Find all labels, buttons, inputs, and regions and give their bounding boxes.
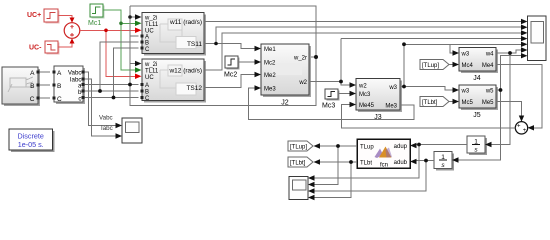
wire Me5 to summer top xyxy=(496,102,522,116)
subsystem J5 xyxy=(459,85,498,110)
svg-text:w_2i: w_2i xyxy=(144,62,157,68)
junction w5 xyxy=(499,88,503,92)
svg-text:w2: w2 xyxy=(358,84,367,90)
arrow Me45 xyxy=(350,102,357,107)
junction adup xyxy=(417,143,421,147)
wire UC+ step to summer xyxy=(58,16,72,22)
svg-text:Mc4: Mc4 xyxy=(462,63,474,69)
wire TLup to Mc4 xyxy=(449,64,453,66)
wire TLup to goto xyxy=(320,145,357,147)
powergui Discrete block xyxy=(9,129,55,152)
subsystem J3 xyxy=(356,79,402,113)
wire TS11 out xyxy=(204,44,255,49)
SECTION: w2 wiring xyxy=(309,39,522,85)
wire source A to measurement A xyxy=(40,72,50,98)
svg-text:A: A xyxy=(57,70,62,77)
branch w3 to J4 xyxy=(450,44,453,53)
wire w_2r stub from J2 xyxy=(309,56,316,58)
svg-text:Me4: Me4 xyxy=(482,63,494,69)
svg-text:Mc3: Mc3 xyxy=(359,92,371,98)
SECTION: TS outputs wiring xyxy=(204,22,522,88)
svg-text:[TLup]: [TLup] xyxy=(422,63,439,69)
wire TLbt to goto xyxy=(320,161,357,163)
svg-text:B: B xyxy=(145,41,149,47)
wire phase b xyxy=(85,90,139,92)
wire w_2i stub into TS11 xyxy=(130,16,136,18)
svg-text:+: + xyxy=(523,128,527,134)
junction w3 top xyxy=(402,42,406,46)
from tag TLup xyxy=(420,60,449,70)
svg-text:w_2r: w_2r xyxy=(293,55,307,61)
svg-text:TL11: TL11 xyxy=(145,69,159,75)
wire phase a xyxy=(85,84,139,86)
svg-text:w_2i: w_2i xyxy=(144,16,157,22)
junction adub xyxy=(424,159,428,163)
svg-text:[TLbt]: [TLbt] xyxy=(422,100,438,106)
scope3 (7 inputs) xyxy=(528,16,547,61)
svg-text:Vabc: Vabc xyxy=(99,115,113,122)
summer circle (red source) xyxy=(64,23,80,39)
drop adup to scope2 in1 xyxy=(315,145,420,179)
svg-text:w3: w3 xyxy=(461,89,470,95)
wire w11 to scope xyxy=(204,21,522,23)
step Mc2 xyxy=(224,56,240,79)
wire w3 riser to scope in5 xyxy=(404,44,522,86)
junction w2 xyxy=(339,80,343,84)
svg-text:C: C xyxy=(57,96,62,103)
wire w4 to scope in6 xyxy=(496,50,522,53)
junction w4 xyxy=(508,51,512,55)
svg-text:J4: J4 xyxy=(473,75,481,82)
arrows into scope3 xyxy=(521,19,528,24)
riser a to TS11 A xyxy=(130,35,139,37)
svg-text:A: A xyxy=(145,83,149,89)
junction TLup xyxy=(336,144,340,148)
junction UC net xyxy=(104,29,108,33)
junction w_2r xyxy=(314,55,318,59)
svg-text:B: B xyxy=(145,90,149,96)
svg-text:Mc2: Mc2 xyxy=(264,60,276,66)
subsystem TS12 (motor 1 lower) xyxy=(141,59,206,103)
wire UC net to TS11 and TS12 xyxy=(80,30,136,76)
three-phase V-I measurement block xyxy=(53,66,86,104)
wire TS12 out to Me2 xyxy=(204,75,255,88)
SECTION: J4/J5 outputs xyxy=(459,50,543,160)
svg-text:UC+: UC+ xyxy=(27,12,41,19)
SECTION: phase wires a b c xyxy=(85,36,139,98)
junction w3 out xyxy=(402,85,406,89)
riser TS11 to scope in2 xyxy=(216,27,522,43)
wire TLbt to Mc5 xyxy=(449,101,453,103)
wire Mc1 to TL11 of TS11 and TS12 xyxy=(103,10,136,70)
wire Vabc to scope1 xyxy=(85,72,117,126)
SECTION: Vabc Iabc to scope1 xyxy=(85,72,117,136)
wire phase c xyxy=(85,97,139,99)
svg-text:B: B xyxy=(30,83,34,90)
svg-text:Me1: Me1 xyxy=(264,47,276,53)
svg-text:Mc5: Mc5 xyxy=(462,100,474,106)
svg-text:UC-: UC- xyxy=(29,45,42,52)
svg-text:w3: w3 xyxy=(388,85,397,91)
svg-text:w4: w4 xyxy=(485,52,494,58)
svg-text:fcn: fcn xyxy=(380,163,388,169)
svg-text:Vabc: Vabc xyxy=(68,70,82,77)
SECTION: integrator outputs to fcn xyxy=(315,145,468,192)
svg-text:Me5: Me5 xyxy=(482,100,494,106)
step source UC- xyxy=(45,41,60,55)
wire int2 out to adub xyxy=(417,160,435,162)
svg-text:c: c xyxy=(78,95,81,102)
step source UC+ xyxy=(44,9,60,24)
scope1 (Vabc/Iabc) xyxy=(122,118,142,143)
wire w_2i stub into TS12 xyxy=(130,63,136,65)
branch w3 to J5 xyxy=(404,87,453,91)
svg-text:C: C xyxy=(145,47,150,53)
summer (Me4+Me5) xyxy=(515,122,527,134)
svg-text:TLup: TLup xyxy=(360,145,374,151)
drop TLup to scope2 in2 xyxy=(315,146,339,185)
svg-text:w2: w2 xyxy=(298,80,307,86)
svg-text:w12 (rad/s): w12 (rad/s) xyxy=(168,68,202,75)
step Mc3 xyxy=(322,89,340,110)
riser b to TS11 B xyxy=(100,42,139,91)
wire Mc2 to J2 xyxy=(238,61,255,63)
svg-text:Iabc: Iabc xyxy=(101,125,113,132)
subsystem J2 xyxy=(261,44,311,97)
goto tag TLbt xyxy=(288,157,313,167)
arrows into fcn xyxy=(410,143,417,148)
riser w2 to scope in4 xyxy=(340,39,342,82)
drop adub to scope2 in3 xyxy=(315,161,427,192)
subsystem J4 xyxy=(459,48,498,74)
junction phase c xyxy=(112,96,116,100)
SECTION: feedback w_2r to w_2i xyxy=(130,6,316,106)
arrows into scope2 xyxy=(308,175,315,180)
drop TLbt to scope2 in4 xyxy=(315,162,352,198)
SECTION: w3 wiring xyxy=(400,44,522,90)
svg-text:TL11: TL11 xyxy=(145,22,159,28)
wire w3 stub xyxy=(400,86,404,88)
svg-text:TS12: TS12 xyxy=(186,85,202,92)
from tag TLbt xyxy=(420,97,449,107)
svg-text:Me3: Me3 xyxy=(264,86,276,92)
wire int1 out to adup xyxy=(417,144,468,146)
subsystem TS11 (motor 1 upper) xyxy=(141,13,206,56)
junction Mc1 net xyxy=(119,22,123,26)
wire w4 down to integrator1 xyxy=(492,53,511,145)
svg-text:w11 (rad/s): w11 (rad/s) xyxy=(169,19,202,26)
wire w2 to J3 xyxy=(309,82,350,86)
wire UC- step to summer xyxy=(58,40,72,48)
junction TLbt xyxy=(349,160,353,164)
svg-text:C: C xyxy=(30,96,35,103)
three-phase source block xyxy=(2,67,40,106)
svg-text:+: + xyxy=(517,124,521,130)
svg-text:Me3: Me3 xyxy=(385,104,397,110)
integrator 1/s upper xyxy=(467,136,487,155)
svg-text:B: B xyxy=(57,83,61,90)
arrows into J2 xyxy=(255,46,262,51)
svg-text:TLbt: TLbt xyxy=(360,161,372,167)
wire w5 down to integrator2 xyxy=(459,90,501,160)
svg-text:adup: adup xyxy=(394,144,408,150)
svg-text:w5: w5 xyxy=(485,89,494,95)
junction phase a xyxy=(128,83,132,87)
SECTION: left red source circuit xyxy=(27,9,142,79)
wire w_2r feedback top loop xyxy=(130,6,316,106)
wire Iabc to scope1 xyxy=(85,79,117,136)
wire w5 to scope in7 xyxy=(496,56,522,90)
svg-text:Me45: Me45 xyxy=(359,103,375,109)
svg-text:[TLup]: [TLup] xyxy=(290,145,307,151)
svg-text:Mc3: Mc3 xyxy=(322,103,335,110)
junction TS11 out xyxy=(214,42,218,46)
svg-text:UC: UC xyxy=(145,75,154,81)
junction phase b xyxy=(98,89,102,93)
svg-text:Me2: Me2 xyxy=(264,73,276,79)
svg-text:C: C xyxy=(145,96,150,102)
step source Mc1 xyxy=(90,4,105,19)
svg-text:Mc2: Mc2 xyxy=(224,72,237,79)
svg-text:w3: w3 xyxy=(461,52,470,58)
riser c to TS11 C xyxy=(114,48,139,97)
svg-text:J2: J2 xyxy=(281,100,289,107)
integrator 1/s lower xyxy=(434,152,454,171)
goto tag TLup xyxy=(288,141,313,151)
svg-text:Mc1: Mc1 xyxy=(88,20,101,27)
scope2 (4 inputs bottom) xyxy=(289,177,308,200)
wire summer out to Me45 xyxy=(342,105,516,128)
svg-text:A: A xyxy=(30,70,35,77)
svg-text:[TLbt]: [TLbt] xyxy=(290,161,306,167)
SECTION: Mc1 green xyxy=(88,4,142,73)
junction w_2i split xyxy=(128,15,132,19)
svg-text:J5: J5 xyxy=(473,112,481,119)
wire Mc3 to J3 xyxy=(338,93,350,95)
SECTION: TLup/TLbt outputs xyxy=(315,146,358,198)
SECTION: Me3 feedback loop xyxy=(249,88,415,120)
wire Me3 loop J3 to J2 xyxy=(249,88,415,120)
svg-text:TS11: TS11 xyxy=(187,41,202,48)
svg-text:adub: adub xyxy=(394,160,408,166)
wire w12 to scope in3 xyxy=(204,33,522,70)
wire Me4 to summer right xyxy=(496,65,542,128)
svg-text:1e-05 s.: 1e-05 s. xyxy=(18,140,44,149)
MATLAB function block fcn xyxy=(357,139,410,169)
